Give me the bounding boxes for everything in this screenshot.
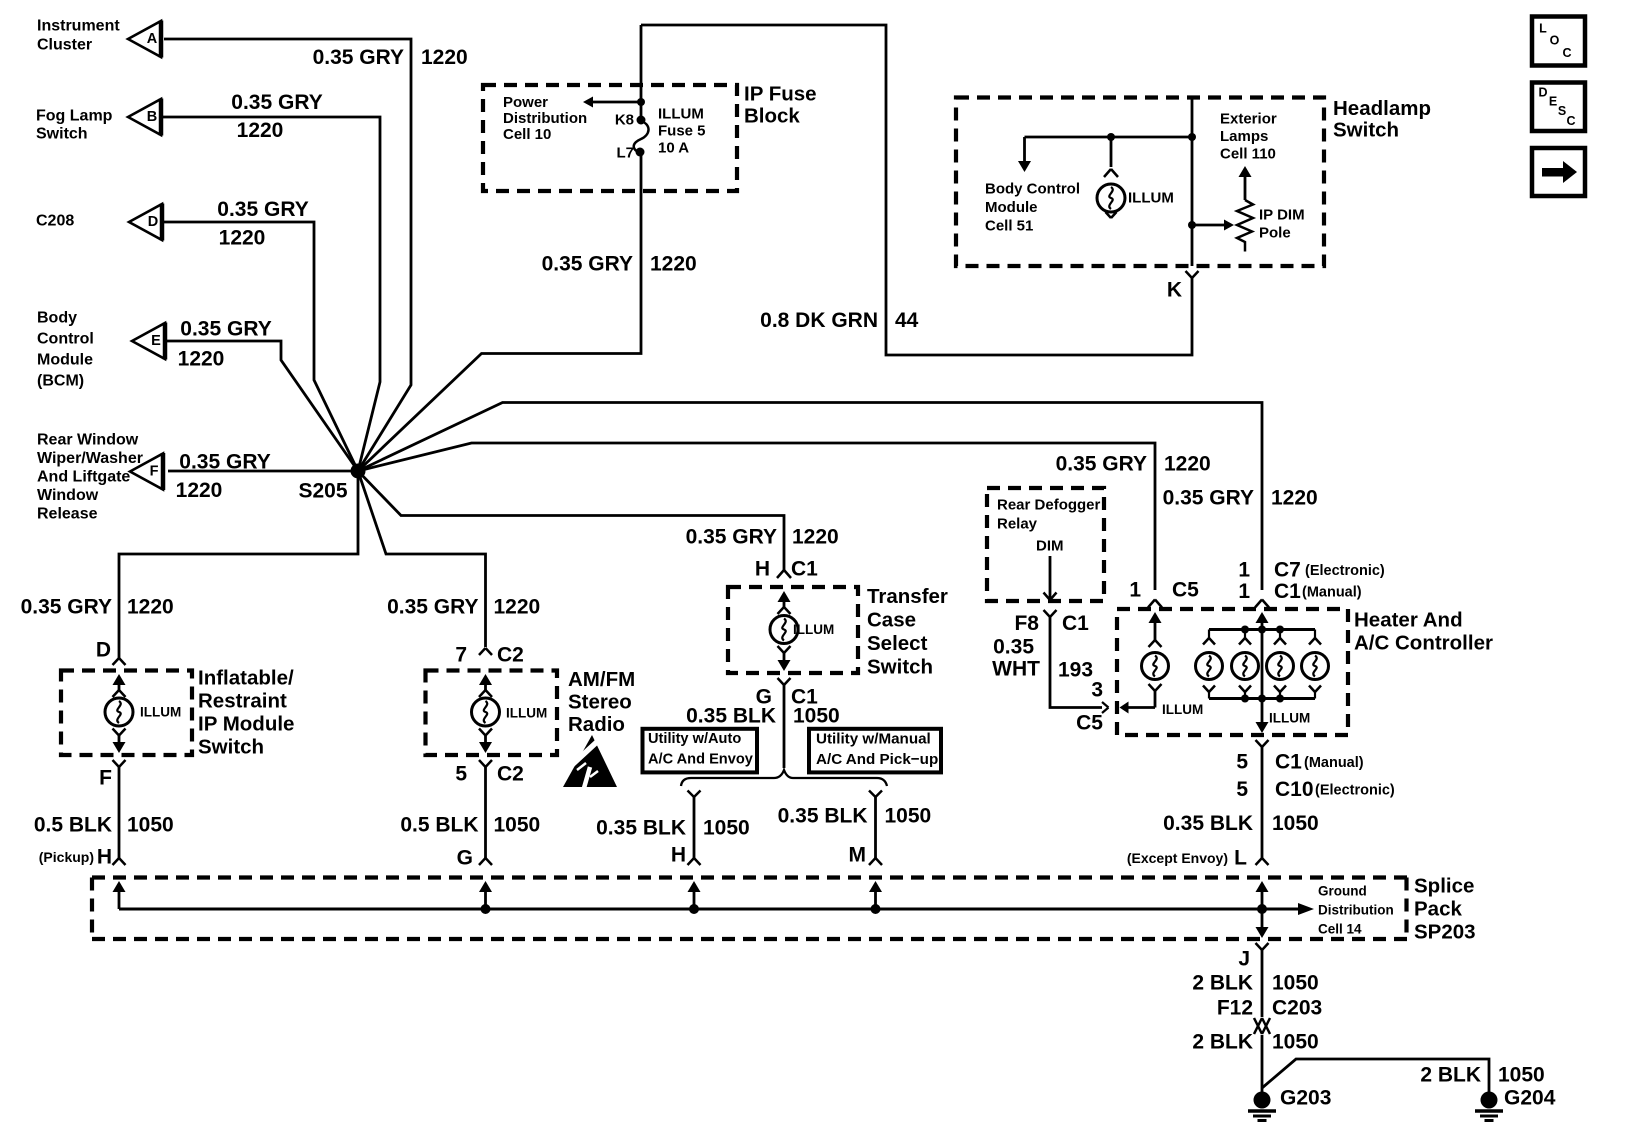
svg-text:Switch: Switch: [867, 656, 933, 679]
svg-text:1050: 1050: [494, 814, 541, 837]
svg-text:C7: C7: [1274, 559, 1301, 582]
svg-text:A/C And Envoy: A/C And Envoy: [648, 752, 754, 768]
svg-text:(Manual): (Manual): [1304, 755, 1364, 771]
svg-text:M: M: [849, 844, 867, 867]
svg-text:Utility w/Auto: Utility w/Auto: [648, 731, 741, 747]
svg-text:G: G: [457, 847, 473, 870]
svg-text:Fuse 5: Fuse 5: [658, 123, 706, 140]
svg-text:1220: 1220: [127, 596, 174, 619]
svg-text:Rear Window: Rear Window: [37, 432, 139, 449]
svg-text:L: L: [1234, 847, 1247, 870]
svg-text:44: 44: [895, 309, 919, 332]
svg-text:Transfer: Transfer: [867, 585, 948, 608]
svg-text:0.35 GRY: 0.35 GRY: [179, 451, 270, 474]
svg-text:H: H: [671, 844, 686, 867]
svg-text:Fog Lamp: Fog Lamp: [36, 108, 113, 125]
svg-text:J: J: [1238, 948, 1250, 971]
svg-text:10 A: 10 A: [658, 140, 689, 157]
svg-text:ILLUM: ILLUM: [1269, 711, 1310, 726]
svg-text:ILLUM: ILLUM: [658, 106, 704, 123]
svg-text:0.8 DK GRN: 0.8 DK GRN: [760, 309, 878, 332]
svg-text:A/C And Pick−up: A/C And Pick−up: [816, 751, 938, 768]
svg-text:IP Fuse: IP Fuse: [744, 83, 817, 106]
svg-text:1220: 1220: [792, 526, 839, 549]
svg-text:Wiper/Washer: Wiper/Washer: [37, 450, 143, 467]
svg-text:F: F: [99, 767, 112, 790]
svg-text:K: K: [1167, 279, 1182, 302]
svg-text:Relay: Relay: [997, 516, 1038, 533]
svg-text:E: E: [1549, 95, 1557, 109]
svg-text:Switch: Switch: [1333, 119, 1399, 142]
svg-text:Utility w/Manual: Utility w/Manual: [816, 731, 931, 748]
svg-text:Select: Select: [867, 632, 928, 655]
svg-text:Ground: Ground: [1318, 884, 1367, 899]
svg-text:F12: F12: [1217, 997, 1253, 1020]
svg-text:3: 3: [1091, 679, 1103, 702]
svg-text:7: 7: [455, 644, 467, 667]
svg-text:Pack: Pack: [1414, 898, 1462, 921]
svg-text:1: 1: [1129, 579, 1141, 602]
svg-text:Body Control: Body Control: [985, 181, 1080, 198]
svg-text:C1: C1: [791, 558, 818, 581]
svg-text:L7: L7: [616, 145, 634, 162]
svg-text:0.5 BLK: 0.5 BLK: [400, 814, 478, 837]
svg-text:C5: C5: [1172, 579, 1199, 602]
svg-text:S: S: [1558, 104, 1566, 118]
svg-text:DIM: DIM: [1036, 538, 1064, 555]
svg-text:1050: 1050: [1272, 812, 1319, 835]
svg-text:SP203: SP203: [1414, 921, 1476, 944]
svg-text:Cluster: Cluster: [37, 37, 92, 54]
svg-text:ILLUM: ILLUM: [793, 622, 834, 637]
svg-text:K8: K8: [615, 112, 634, 129]
svg-text:Cell 10: Cell 10: [503, 126, 551, 143]
svg-text:Lamps: Lamps: [1220, 128, 1268, 145]
svg-text:(Electronic): (Electronic): [1315, 783, 1395, 799]
svg-text:ILLUM: ILLUM: [506, 706, 547, 721]
svg-text:Cell 51: Cell 51: [985, 218, 1033, 235]
svg-text:ILLUM: ILLUM: [1128, 190, 1174, 207]
svg-text:C: C: [1562, 46, 1571, 60]
svg-text:1050: 1050: [1498, 1064, 1545, 1087]
svg-text:1050: 1050: [127, 814, 174, 837]
svg-text:Control: Control: [37, 331, 94, 348]
svg-text:Radio: Radio: [568, 713, 625, 736]
svg-text:Cell 14: Cell 14: [1318, 922, 1362, 937]
svg-text:(BCM): (BCM): [37, 373, 84, 390]
svg-text:0.35 GRY: 0.35 GRY: [217, 198, 308, 221]
svg-text:C1: C1: [1275, 751, 1302, 774]
svg-text:B: B: [147, 109, 157, 125]
svg-text:D: D: [1538, 86, 1547, 100]
svg-text:C203: C203: [1272, 997, 1322, 1020]
svg-text:F8: F8: [1014, 612, 1039, 635]
svg-text:C1: C1: [791, 686, 818, 709]
svg-text:(Electronic): (Electronic): [1305, 563, 1385, 579]
svg-text:Splice: Splice: [1414, 875, 1474, 898]
svg-text:D: D: [96, 639, 111, 662]
svg-text:Window: Window: [37, 487, 99, 504]
svg-text:ILLUM: ILLUM: [1162, 702, 1203, 717]
svg-text:Power: Power: [503, 94, 548, 111]
svg-text:C208: C208: [36, 213, 74, 230]
svg-text:0.35 GRY: 0.35 GRY: [313, 46, 404, 69]
svg-text:H: H: [755, 558, 770, 581]
svg-text:5: 5: [1236, 751, 1248, 774]
svg-text:5: 5: [1236, 778, 1248, 801]
svg-text:0.5 BLK: 0.5 BLK: [34, 814, 112, 837]
svg-text:1: 1: [1238, 559, 1250, 582]
svg-text:2 BLK: 2 BLK: [1192, 972, 1253, 995]
svg-text:Case: Case: [867, 609, 916, 632]
svg-text:IP DIM: IP DIM: [1259, 207, 1305, 224]
svg-text:0.35 BLK: 0.35 BLK: [1163, 812, 1253, 835]
svg-text:O: O: [1550, 34, 1560, 48]
svg-text:1220: 1220: [1271, 487, 1318, 510]
svg-text:IP Module: IP Module: [198, 713, 294, 736]
svg-text:E: E: [151, 333, 161, 349]
svg-text:C2: C2: [497, 763, 524, 786]
svg-text:Block: Block: [744, 105, 800, 128]
svg-text:0.35 GRY: 0.35 GRY: [387, 596, 478, 619]
svg-text:C5: C5: [1076, 712, 1103, 735]
svg-text:0.35 GRY: 0.35 GRY: [542, 253, 633, 276]
svg-text:S205: S205: [298, 480, 347, 503]
svg-text:Module: Module: [37, 352, 93, 369]
svg-text:5: 5: [455, 763, 467, 786]
svg-text:1050: 1050: [1272, 1031, 1319, 1054]
svg-text:2 BLK: 2 BLK: [1420, 1064, 1481, 1087]
svg-text:C2: C2: [497, 644, 524, 667]
svg-text:Inflatable/: Inflatable/: [198, 667, 294, 690]
svg-text:1: 1: [1238, 580, 1250, 603]
svg-text:(Except Envoy): (Except Envoy): [1127, 850, 1228, 866]
svg-text:Switch: Switch: [36, 126, 88, 143]
svg-text:ILLUM: ILLUM: [140, 705, 181, 720]
svg-text:1220: 1220: [650, 253, 697, 276]
svg-text:1220: 1220: [1164, 453, 1211, 476]
svg-text:1050: 1050: [703, 817, 750, 840]
svg-text:And Liftgate: And Liftgate: [37, 469, 130, 486]
svg-text:Rear Defogger: Rear Defogger: [997, 497, 1101, 514]
svg-text:Distribution: Distribution: [1318, 903, 1394, 918]
svg-text:Body: Body: [37, 310, 77, 327]
svg-text:193: 193: [1058, 659, 1093, 682]
svg-text:1220: 1220: [176, 479, 223, 502]
svg-text:Heater And: Heater And: [1354, 609, 1463, 632]
svg-text:WHT: WHT: [992, 658, 1040, 681]
svg-text:1220: 1220: [178, 348, 225, 371]
svg-text:AM/FM: AM/FM: [568, 668, 635, 691]
svg-text:Release: Release: [37, 506, 98, 523]
svg-text:0.35 GRY: 0.35 GRY: [180, 318, 271, 341]
svg-text:A: A: [147, 31, 158, 47]
svg-text:1220: 1220: [219, 227, 266, 250]
svg-text:0.35 GRY: 0.35 GRY: [1163, 487, 1254, 510]
svg-text:Distribution: Distribution: [503, 110, 587, 127]
svg-text:L: L: [1539, 22, 1547, 36]
svg-text:C1: C1: [1274, 580, 1301, 603]
svg-text:C1: C1: [1062, 612, 1089, 635]
svg-text:C10: C10: [1275, 778, 1314, 801]
svg-text:A/C Controller: A/C Controller: [1354, 632, 1493, 655]
svg-text:D: D: [148, 214, 158, 230]
svg-text:2 BLK: 2 BLK: [1192, 1031, 1253, 1054]
svg-text:G204: G204: [1504, 1087, 1556, 1110]
svg-text:C: C: [1566, 114, 1575, 128]
svg-text:G203: G203: [1280, 1087, 1331, 1110]
svg-text:(Manual): (Manual): [1302, 585, 1362, 601]
svg-text:Stereo: Stereo: [568, 691, 632, 714]
svg-text:Pole: Pole: [1259, 225, 1291, 242]
svg-text:1220: 1220: [237, 119, 284, 142]
svg-text:Switch: Switch: [198, 736, 264, 759]
svg-text:0.35 BLK: 0.35 BLK: [596, 817, 686, 840]
svg-text:(Pickup): (Pickup): [39, 849, 94, 865]
svg-text:0.35 GRY: 0.35 GRY: [1056, 453, 1147, 476]
svg-text:Exterior: Exterior: [1220, 111, 1277, 128]
svg-text:F: F: [150, 464, 159, 480]
svg-text:1220: 1220: [494, 596, 541, 619]
svg-text:0.35: 0.35: [993, 636, 1034, 659]
svg-text:H: H: [97, 846, 112, 869]
svg-text:1050: 1050: [885, 805, 932, 828]
svg-text:Restraint: Restraint: [198, 690, 287, 713]
svg-text:Instrument: Instrument: [37, 18, 120, 35]
svg-text:0.35 BLK: 0.35 BLK: [778, 805, 868, 828]
svg-text:Headlamp: Headlamp: [1333, 97, 1431, 120]
svg-text:0.35 GRY: 0.35 GRY: [686, 526, 777, 549]
svg-text:1220: 1220: [421, 46, 468, 69]
svg-text:Cell 110: Cell 110: [1220, 146, 1276, 163]
svg-text:1050: 1050: [1272, 972, 1319, 995]
svg-text:Module: Module: [985, 199, 1038, 216]
svg-text:0.35 GRY: 0.35 GRY: [21, 596, 112, 619]
svg-text:G: G: [756, 686, 772, 709]
svg-text:0.35 GRY: 0.35 GRY: [231, 91, 322, 114]
